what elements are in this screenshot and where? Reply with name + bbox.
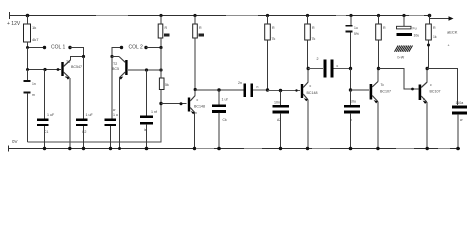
resistor R6 [305,16,311,69]
label C6 [222,98,228,123]
label T3 [194,98,205,115]
crystal hatched element [395,46,413,52]
svg-text:2n: 2n [238,81,242,85]
label C3 [82,113,93,134]
svg-text:R: R [165,26,168,30]
svg-text:c: c [430,83,432,87]
label C10 [354,26,359,36]
svg-text:Ck: Ck [223,118,227,122]
svg-text:C1: C1 [44,130,48,134]
label T5 [380,83,391,94]
svg-text:COL 1: COL 1 [51,45,65,51]
svg-text:COL 2: COL 2 [129,45,143,51]
svg-text:+ 12V: + 12V [7,21,21,27]
capacitor C9 series [325,60,351,78]
svg-text:n: n [350,118,352,122]
node T3 base node [159,102,162,105]
label C7 [238,81,259,89]
svg-text:4k7: 4k7 [32,37,39,42]
svg-text:c: c [310,84,312,88]
svg-text:1 u: 1 u [113,113,118,117]
svg-text:10u: 10u [414,34,420,38]
transistor T5 [370,69,378,149]
svg-text:R: R [199,26,202,30]
label R6 [312,26,316,41]
transistor T1 [61,60,70,80]
capacitor C3 [76,57,88,149]
label C8 [274,101,281,123]
svg-text:1k: 1k [433,35,437,39]
svg-text:A2: A2 [277,118,281,122]
svg-text:R: R [312,26,315,30]
wire T5 collector to T6 base [379,69,419,90]
node rail junction dots [26,14,432,18]
label T1 [65,60,82,79]
label C13 [456,101,464,122]
label R4 [165,83,169,87]
svg-text:7k: 7k [272,37,276,41]
node T6 collector junction [426,67,429,70]
svg-text:+: + [448,44,450,48]
resistor R2 [158,16,163,48]
svg-text:BC148: BC148 [307,91,318,95]
wire COL1 left terminal [28,47,45,49]
wire to C8 tap [268,89,301,91]
transistor T3 [188,90,195,149]
svg-text:w: w [113,108,116,112]
svg-text:w: w [460,118,463,122]
label C4 [113,108,118,117]
svg-text:T2: T2 [113,62,117,66]
label T2 [112,62,119,71]
label T6 [423,83,441,101]
svg-text:Tc: Tc [381,83,385,87]
wire T1 emitter to ground [69,78,71,149]
svg-text:1u: 1u [354,26,358,30]
wire to C9 [308,68,323,70]
label R8 [433,26,437,39]
wire COL1 right terminal [70,48,84,57]
svg-text:R: R [433,26,436,30]
label R5 [272,26,276,41]
transistor T2 [112,57,128,149]
svg-text:1k: 1k [32,25,36,30]
node COL2 feed junction [159,46,162,49]
node T4 collector junction [307,67,310,70]
capacitor C7 series [245,84,268,98]
svg-text:m: m [194,111,197,115]
wire top supply rail [9,12,430,19]
label R7 [383,26,386,30]
capacitor C2 [37,70,49,149]
label C12 [398,27,420,60]
wire T6 collector to C13 [427,69,457,106]
label R2 [164,26,170,37]
node T1 collector junction [82,55,85,58]
node T5 collector junction [377,67,380,70]
wire T1 collector link [71,57,84,61]
capacitor C10 small from rail [346,16,353,69]
node T3 collector junction [194,88,197,91]
svg-text:n: n [257,85,259,89]
svg-text:5%: 5% [354,32,359,36]
node R8 mid junction [427,44,430,47]
label C1 [32,82,36,97]
node output arrowhead [449,16,454,20]
svg-text:BC5: BC5 [112,67,119,71]
wire COL2 right terminal [146,47,161,49]
svg-text:e: e [65,75,67,79]
label R3 [199,26,205,37]
transistor T4 [301,69,308,149]
svg-text:7k: 7k [312,37,316,41]
svg-text:m: m [32,93,35,97]
node base blob [180,102,183,105]
node T5 base feed junction [349,67,352,70]
node COL1 terminal dots [26,46,72,49]
node COL2 terminal dots [110,46,147,58]
resistor R8 [426,16,432,69]
label C9 [317,57,339,68]
resistor R5 [265,16,271,91]
svg-text:1 uF: 1 uF [47,113,55,117]
svg-text:1n: 1n [32,82,36,86]
svg-text:1 uF: 1 uF [86,113,94,117]
svg-text:0V: 0V [12,139,18,144]
svg-text:C2: C2 [82,130,86,134]
label C11 [350,100,356,123]
label output [447,30,458,48]
svg-text:R: R [383,26,386,30]
node T6 base blob [411,88,414,91]
node T4 base blob [295,89,297,91]
svg-text:R: R [272,26,275,30]
label R1 value [32,25,39,42]
label T4 [307,84,318,95]
scan fade overlays on rails [96,16,450,149]
svg-text:2: 2 [317,57,319,61]
wire feedback bottom run [28,104,162,143]
label C5 [144,110,157,132]
svg-text:1 uf: 1 uf [222,98,228,102]
svg-text:c: c [197,98,199,102]
svg-text:b-W: b-W [398,56,405,60]
svg-text:10n: 10n [274,101,280,105]
resistor R4 [159,70,164,104]
node R5 signal junction [266,88,269,91]
node base line dots [26,68,59,71]
svg-text:c: c [337,64,339,68]
node C6 tap [217,88,220,91]
wire T2 base line [128,69,161,71]
wire T5 base line [351,89,370,91]
resistor R3 [193,16,198,96]
svg-text:BC107: BC107 [380,90,391,94]
capacitor C13 electrolytic [452,107,467,149]
node C8 tap [279,89,282,92]
wire R2 to T2 base node [160,48,162,71]
capacitor C8 [273,91,290,149]
wire bottom ground rail [8,146,460,152]
capacitor C4 [105,57,117,149]
wire output tap top right [430,16,450,19]
node T2 base dots [145,68,163,71]
svg-text:Fu: Fu [413,27,417,31]
svg-text:e: e [423,97,425,101]
node T5 base tap [349,88,352,91]
wire down to T5 base [350,69,352,91]
svg-text:1 nf: 1 nf [151,110,157,114]
wire T1 base line [28,48,62,70]
resistor R1 [24,16,31,48]
wire COL2 left terminal [112,48,121,57]
wire T3 base line [161,103,187,105]
svg-text:T1: T1 [66,60,70,64]
capacitor C6 electrolytic [212,90,226,149]
svg-text:ls: ls [144,128,147,132]
svg-text:BC547: BC547 [71,65,82,69]
svg-text:aECK: aECK [447,30,458,35]
wire interstage signal line [195,89,243,91]
capacitor C12 with damper from rail [397,16,413,37]
capacitor C11 electrolytic [344,90,360,149]
label C2 [44,113,55,134]
capacitor C5 [140,70,153,149]
svg-text:10u: 10u [350,100,356,104]
capacitor C1 series in base feed [24,70,31,143]
resistor R7 [376,16,382,69]
svg-text:110a: 110a [456,101,464,105]
svg-text:5k: 5k [165,83,169,87]
svg-text:BC148: BC148 [194,105,205,109]
svg-text:BC107: BC107 [430,90,441,94]
transistor T6 [419,69,428,149]
node ground rail dots [43,147,460,151]
